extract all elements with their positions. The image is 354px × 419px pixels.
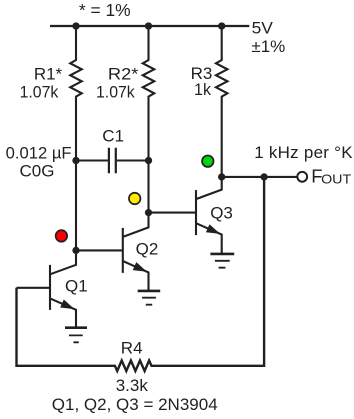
svg-text:1.07k: 1.07k [96, 82, 135, 101]
svg-text:5V: 5V [252, 19, 274, 38]
svg-text:Q3: Q3 [210, 203, 233, 222]
svg-text:1.07k: 1.07k [20, 82, 59, 101]
svg-text:±1%: ±1% [251, 37, 285, 56]
svg-text:* = 1%: * = 1% [79, 0, 131, 20]
svg-text:1 kHz per °K: 1 kHz per °K [254, 143, 353, 162]
svg-text:C1: C1 [102, 127, 124, 146]
svg-text:OUT: OUT [321, 172, 351, 187]
svg-text:Q1: Q1 [65, 277, 88, 296]
svg-text:Q1, Q2, Q3 = 2N3904: Q1, Q2, Q3 = 2N3904 [52, 395, 218, 414]
svg-text:R2*: R2* [108, 65, 139, 84]
svg-text:1k: 1k [194, 80, 211, 99]
svg-text:C0G: C0G [20, 162, 55, 181]
svg-text:3.3k: 3.3k [116, 376, 149, 395]
svg-text:Q2: Q2 [136, 240, 159, 259]
svg-text:R1*: R1* [34, 65, 63, 84]
svg-text:R4: R4 [121, 339, 143, 358]
svg-text:0.012 µF: 0.012 µF [6, 143, 72, 162]
